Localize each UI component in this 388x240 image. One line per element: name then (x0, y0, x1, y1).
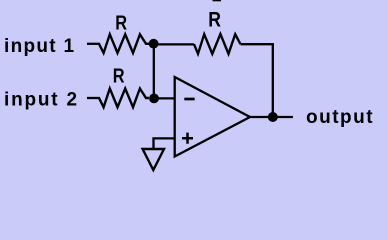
svg-text:R: R (113, 64, 125, 87)
wire node A to node B (153, 44, 155, 99)
wire feedback vertical (272, 44, 274, 117)
ground (143, 149, 164, 170)
resistor R2 (99, 89, 149, 108)
wire op-amp + input to ground (154, 138, 175, 149)
svg-text:input 2: input 2 (4, 90, 79, 111)
junction node A (149, 39, 159, 49)
svg-text:R: R (208, 8, 221, 32)
svg-text:R: R (115, 11, 127, 34)
wire node A to feedback resistor (154, 43, 194, 45)
resistor R1 (99, 34, 150, 53)
op-amp inverting input marker (-) (184, 98, 194, 101)
wire input 1 lead (87, 43, 100, 45)
wire op-amp output (250, 116, 293, 118)
junction output node (268, 112, 278, 122)
junction node B (149, 94, 159, 104)
cropped label fragment (top edge) (213, 0, 222, 1)
op-amp U1 (175, 77, 250, 157)
op-amp non-inverting input marker (+) (182, 133, 193, 144)
wire feedback top (241, 43, 274, 45)
wire input 2 lead (87, 97, 100, 99)
svg-text:input 1: input 1 (4, 36, 75, 57)
resistor R3 (feedback) (194, 34, 241, 54)
svg-text:output: output (306, 107, 374, 128)
wire node B to op-amp inverting input (154, 97, 175, 99)
